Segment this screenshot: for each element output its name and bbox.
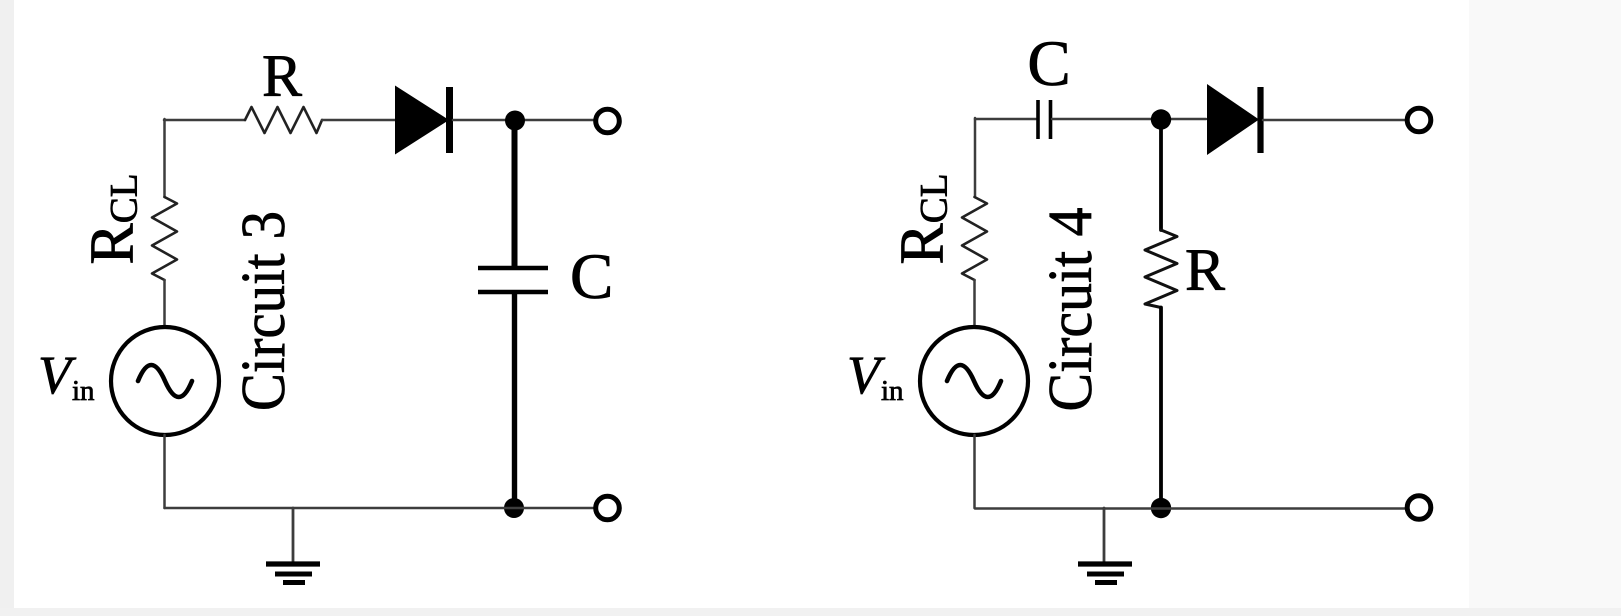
svg-text:in: in — [881, 375, 904, 407]
wire capacitor to node — [1052, 118, 1206, 121]
node junction bottom (dot) — [1151, 498, 1171, 518]
wire bottom rail right — [975, 507, 1405, 510]
wire source to bottom rail right — [973, 435, 976, 508]
capacitor C1 plate top — [478, 266, 548, 271]
wire corner down to RCL right — [974, 118, 977, 197]
diode D1 cathode bar — [446, 87, 453, 153]
output terminal bottom — [596, 496, 620, 520]
wire source to bottom rail — [163, 435, 166, 508]
wire diode to output — [1263, 119, 1405, 122]
svg-text:R: R — [262, 43, 302, 109]
wire diode to node — [453, 119, 594, 122]
resistor RCL zigzag (vertical) — [152, 197, 177, 280]
wire resistor to diode — [322, 119, 396, 122]
ground bar 3 — [283, 580, 305, 585]
diode D2 triangle — [1207, 84, 1259, 155]
wire resistor to bottom node — [1159, 308, 1163, 506]
wire corner down to RCL — [163, 119, 166, 197]
svg-text:in: in — [72, 375, 95, 407]
ground bar 1 — [266, 561, 320, 566]
wire RCL to source — [163, 280, 166, 328]
svg-text:R: R — [1185, 237, 1225, 303]
capacitor C1 plate bottom — [478, 290, 548, 295]
source V1 sine wave — [138, 365, 192, 397]
ground stem right — [1103, 508, 1106, 562]
diode D1 triangle — [395, 86, 449, 155]
node junction top (dot) — [1151, 109, 1171, 129]
diode D2 cathode bar — [1257, 87, 1263, 153]
wire top-left horizontal to capacitor C — [975, 118, 1036, 121]
source V2 sine wave — [947, 365, 1001, 397]
output terminal top — [596, 109, 620, 133]
ground bar 2 — [275, 572, 312, 577]
ground bar 3 right — [1095, 580, 1117, 585]
ground bar 2 right — [1087, 572, 1124, 577]
capacitor C2 plate left — [1036, 100, 1040, 139]
output terminal top right — [1407, 108, 1431, 132]
wire bottom rail — [165, 507, 595, 510]
wire top-left horizontal to resistor R — [164, 119, 245, 122]
wire capacitor to bottom node (thick lead) — [512, 294, 517, 505]
source V1 circle — [111, 327, 219, 435]
wire node down to resistor R2 — [1159, 121, 1163, 230]
source V2 circle — [920, 327, 1028, 435]
ground bar 1 right — [1078, 561, 1132, 566]
svg-text:C: C — [1027, 28, 1070, 100]
resistor R2 zigzag (vertical) — [1145, 230, 1177, 308]
output terminal bottom right — [1407, 496, 1431, 520]
ground stem — [292, 508, 295, 562]
wire RCL2 to source — [973, 280, 976, 328]
capacitor C2 plate right — [1049, 100, 1053, 139]
node junction bottom (dot) — [504, 498, 524, 518]
resistor R1 (R) zigzag — [245, 107, 322, 133]
svg-text:C: C — [570, 241, 613, 313]
svg-text:Circuit 4: Circuit 4 — [1037, 208, 1105, 412]
svg-text:Circuit 3: Circuit 3 — [230, 211, 298, 411]
resistor RCL2 zigzag (vertical) — [962, 197, 987, 280]
wire node down to capacitor C (thick lead) — [512, 122, 518, 266]
node junction top (dot) — [505, 111, 525, 131]
